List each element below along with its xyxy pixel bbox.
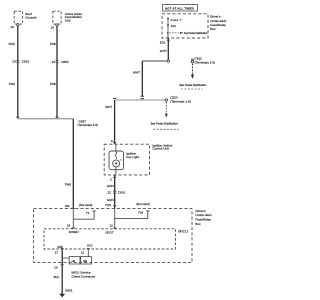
svg-text:GRN: GRN [107, 184, 114, 188]
svg-text:PNK: PNK [50, 42, 57, 46]
svg-text:12: 12 [81, 250, 85, 254]
see power distribution arrow (in fuse box) [167, 32, 169, 34]
dashed underline below see power distribution (C812) [181, 88, 202, 90]
svg-text:GND: GND [57, 245, 63, 249]
svg-text:(Terminals 1-6): (Terminals 1-6) [195, 61, 216, 65]
connector C853 symbol on wire [55, 61, 58, 63]
roof console terminal circle [17, 24, 19, 26]
wire C857 to fuse box (PNK) [72, 119, 74, 209]
svg-text:C853: C853 [61, 60, 69, 64]
svg-text:19: 19 [10, 25, 14, 29]
C812 reference: tick, circle, dashed arrow [191, 58, 194, 60]
svg-text:ROOMLT: ROOMLT [69, 231, 80, 234]
terminal tick W4 [72, 207, 75, 209]
W4 wire inside box continues to MICU pin 18 [72, 209, 74, 229]
svg-text:(Terminals 4-6): (Terminals 4-6) [77, 123, 98, 127]
svg-text:13: 13 [110, 224, 114, 228]
svg-text:HOT AT ALL TIMES: HOT AT ALL TIMES [165, 6, 194, 10]
terminal tick pin 9 [113, 142, 116, 144]
svg-text:Fuse 7: Fuse 7 [171, 18, 182, 22]
service check connector terminal 1 [69, 257, 80, 264]
joint connector C857 bus [17, 118, 73, 120]
svg-text:GRN: GRN [107, 198, 114, 202]
branch to service check connector [62, 257, 69, 259]
jog to T1 stub [73, 211, 94, 219]
terminal tick F14 [146, 210, 149, 212]
svg-text:Key Light: Key Light [126, 155, 139, 159]
svg-text:2: 2 [110, 177, 112, 181]
tick at MICU pin 17 [61, 248, 64, 250]
svg-text:C831: C831 [22, 60, 30, 64]
wire from roof console (PNK) [17, 26, 19, 118]
svg-text:C9: C9 [54, 265, 58, 269]
svg-text:BLK: BLK [54, 275, 61, 279]
svg-text:22: 22 [107, 191, 111, 195]
svg-text:T1: T1 [86, 211, 90, 215]
svg-text:F14: F14 [138, 211, 143, 215]
service check connector terminal 2 [81, 257, 92, 264]
svg-text:MICU: MICU [178, 230, 188, 234]
tick at MICU pin 18 [72, 227, 75, 229]
fuse output wire (WHT) cavity E31 [167, 38, 169, 60]
svg-text:SCS: SCS [87, 244, 93, 248]
C520 joint connector bus [115, 99, 165, 101]
svg-text:10: 10 [52, 60, 56, 64]
tick at MICU pin 13 [113, 227, 116, 229]
svg-text:(Terminals 1-6): (Terminals 1-6) [170, 99, 191, 103]
svg-text:WHT: WHT [133, 71, 140, 75]
tick at left end of C520 bus [113, 97, 116, 99]
terminal ticks at C520 joint [141, 96, 144, 98]
svg-text:Unit: Unit [65, 18, 71, 22]
driver's under-dash fuse/relay box (bottom) [34, 209, 192, 263]
svg-text:Control Unit: Control Unit [152, 147, 168, 151]
svg-text:Check Connector: Check Connector [72, 274, 96, 278]
branch to F14 stub [115, 211, 148, 219]
C857 junction dots [16, 116, 58, 118]
svg-text:10A: 10A [171, 24, 177, 28]
svg-text:PNK: PNK [65, 183, 72, 187]
dashed underline below see power distribution (C520) [153, 128, 178, 130]
svg-text:W4: W4 [65, 204, 70, 208]
connector C801 symbol on wire [113, 191, 116, 193]
svg-text:WHT: WHT [160, 49, 167, 53]
svg-text:See Power Distribution: See Power Distribution [184, 32, 208, 35]
HOT AT ALL TIMES box [163, 4, 198, 11]
wire bulb to box bottom [115, 167, 117, 175]
svg-text:PNK: PNK [9, 42, 16, 46]
fuse 7 symbol [167, 18, 169, 20]
svg-text:Box: Box [195, 222, 201, 226]
svg-text:17: 17 [55, 250, 59, 254]
svg-text:PNK: PNK [9, 82, 16, 86]
wire from ANC unit (PNK) [56, 26, 58, 118]
connector C831 symbol on wire [16, 61, 19, 63]
svg-text:E31: E31 [160, 40, 166, 44]
roof console box [14, 11, 22, 24]
svg-text:KEYLT: KEYLT [105, 231, 113, 235]
svg-text:M3: M3 [83, 259, 87, 263]
ANC unit box [53, 11, 61, 24]
svg-text:G601: G601 [65, 289, 73, 293]
svg-text:9: 9 [111, 139, 113, 143]
svg-text:(Not used): (Not used) [79, 203, 93, 207]
svg-text:PNK: PNK [50, 82, 57, 86]
svg-text:23: 23 [12, 60, 16, 64]
connector circle at C812 junction [167, 60, 169, 62]
MICU dashed box [44, 229, 176, 249]
ignition switch dashed box [104, 144, 149, 175]
svg-text:H16: H16 [105, 203, 111, 207]
svg-text:See Power Distribution: See Power Distribution [150, 122, 178, 126]
tick at MICU pin 12 [87, 248, 90, 250]
svg-text:18: 18 [67, 224, 71, 228]
svg-text:Box: Box [210, 27, 216, 31]
svg-text:(Not used): (Not used) [136, 202, 150, 206]
wire C520 bus to ignition switch (WHT) [114, 100, 116, 144]
terminal tick pin 2 [113, 176, 116, 178]
wire down to C520 bus (WHT) [141, 61, 143, 96]
ignition key light housing [109, 151, 124, 170]
svg-text:See Power Distribution: See Power Distribution [179, 83, 207, 87]
wire jog left (WHT) [142, 60, 167, 62]
terminal tick T1 [93, 210, 96, 212]
ignition key light bulb [113, 160, 120, 167]
terminal tick H16 [113, 205, 116, 207]
svg-text:H9: H9 [72, 259, 76, 263]
C520 connector circle [165, 99, 167, 101]
svg-text:WHT: WHT [105, 105, 112, 109]
wire ignition to under-dash box (GRN) pin 2 [114, 175, 116, 209]
ground symbol G501 [59, 294, 65, 297]
ground wire from MICU pin 17 [61, 249, 63, 295]
H16 wire continues into MICU pin 13 [114, 209, 116, 229]
wire from MICU pin 12 to terminal 2 [87, 249, 89, 257]
tick at box exit C9 [61, 264, 64, 266]
svg-text:16: 16 [50, 25, 54, 29]
wire into bulb with filament squiggle [115, 144, 117, 159]
fuse box (driver's under-dash) [162, 14, 208, 38]
ANC terminal circle [56, 24, 58, 26]
wire fuse to box edge [167, 26, 169, 38]
C520 dashed arrow down [165, 102, 167, 114]
svg-text:Console: Console [25, 16, 37, 20]
terminal tick E31 [167, 39, 170, 41]
svg-text:C801: C801 [118, 191, 126, 195]
